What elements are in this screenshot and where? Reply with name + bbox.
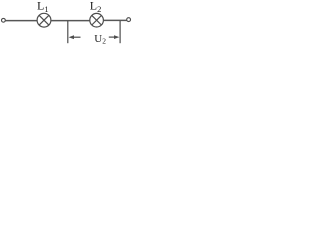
dimension extension line right (119, 21, 121, 43)
wire (103, 19, 126, 21)
lamp L1 (37, 13, 51, 27)
dimension arrow right (109, 35, 120, 39)
svg-text:L2: L2 (90, 0, 102, 14)
lamp L2 (90, 13, 104, 27)
dimension arrow left (69, 35, 81, 39)
terminal right (127, 18, 131, 22)
svg-text:L1: L1 (37, 0, 49, 14)
wire (51, 20, 90, 22)
svg-text:U2: U2 (94, 33, 106, 46)
dimension extension line left (67, 21, 69, 43)
terminal left (2, 18, 6, 22)
wire (5, 20, 37, 22)
